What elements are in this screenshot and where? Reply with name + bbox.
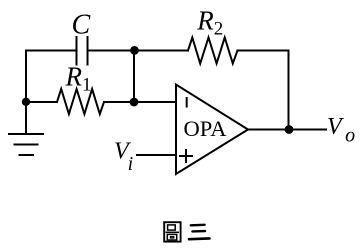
svg-text:Vi: Vi [114,139,133,176]
wire: op-amp output [248,129,326,131]
op-amp U1 triangle [176,85,248,175]
op-amp non-inverting input mark [180,150,192,162]
node C junction dot (inverting input net) [130,98,139,107]
wire: capacitor to R2 [89,50,189,52]
wire: top-left horizontal segment to capacitor [26,50,76,52]
node B junction dot (left rail / R1) [22,98,30,106]
resistor R2 [188,38,238,64]
wire: right vertical feedback drop [288,51,290,130]
svg-text:OPA: OPA [184,116,228,141]
caption glyph 三 (drawn) [189,225,210,239]
svg-text:R1: R1 [65,62,92,96]
op-amp inverting input mark [186,98,188,107]
node D junction dot (output net) [285,125,294,134]
caption glyph 圖 (drawn) [164,222,180,241]
svg-text:R2: R2 [196,6,223,40]
capacitor C [76,37,78,65]
ground [9,134,43,155]
node A junction dot (top, C/R1 net) [130,46,139,55]
wire: Vi to non-inverting input [137,154,176,156]
wire: vertical between top node and inverting node [133,51,135,103]
svg-text:C: C [72,10,91,41]
wire: left rail to R1 [26,101,57,103]
wire: R2 to top-right corner [238,50,289,52]
wire: left vertical rail [25,51,27,135]
resistor R1 [57,89,104,114]
svg-text:Vo: Vo [327,114,355,146]
wire: R1 to inverting input [104,101,176,103]
